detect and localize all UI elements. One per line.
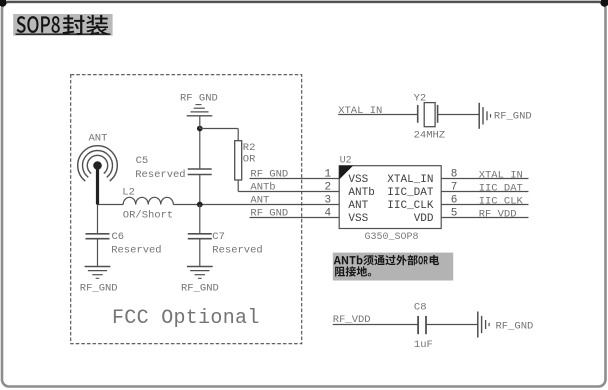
svg-text:C6: C6 [112, 231, 125, 243]
svg-text:RF GND: RF GND [250, 208, 288, 220]
svg-text:Y2: Y2 [414, 93, 427, 105]
svg-text:FCC Optional: FCC Optional [112, 307, 260, 330]
svg-text:RF_GND: RF_GND [494, 111, 532, 123]
svg-text:8: 8 [451, 169, 458, 181]
svg-text:ANT: ANT [89, 133, 108, 145]
svg-text:Reserved: Reserved [212, 245, 262, 257]
svg-text:Reserved: Reserved [111, 245, 161, 257]
svg-text:4: 4 [325, 208, 332, 220]
svg-text:RF_VDD: RF_VDD [333, 314, 371, 326]
svg-text:Reserved: Reserved [135, 169, 185, 181]
svg-text:XTAL IN: XTAL IN [338, 105, 382, 117]
svg-text:3: 3 [325, 195, 332, 207]
svg-text:RF GND: RF GND [180, 93, 218, 105]
svg-text:RF VDD: RF VDD [479, 209, 517, 221]
svg-text:XTAL IN: XTAL IN [479, 170, 523, 182]
svg-text:RF_GND: RF_GND [496, 321, 534, 333]
svg-text:ANT: ANT [250, 195, 269, 207]
svg-text:IIC_CLK: IIC_CLK [387, 200, 434, 212]
svg-text:VDD: VDD [414, 213, 434, 225]
svg-text:RF GND: RF GND [250, 169, 288, 181]
svg-text:ANTb: ANTb [348, 187, 374, 199]
svg-text:IIC_DAT: IIC_DAT [387, 187, 434, 199]
svg-text:IIC DAT: IIC DAT [479, 183, 523, 195]
svg-text:1: 1 [325, 169, 332, 181]
svg-text:RF_GND: RF_GND [80, 283, 118, 295]
svg-text:ANT: ANT [348, 200, 368, 212]
svg-text:VSS: VSS [348, 213, 368, 225]
svg-text:2: 2 [325, 182, 332, 194]
svg-text:OR: OR [243, 154, 256, 166]
svg-text:G350_SOP8: G350_SOP8 [365, 232, 419, 243]
svg-text:6: 6 [451, 195, 458, 207]
svg-text:VSS: VSS [348, 174, 368, 186]
svg-text:XTAL_IN: XTAL_IN [387, 174, 433, 186]
svg-text:5: 5 [451, 208, 458, 220]
svg-text:1uF: 1uF [414, 339, 433, 351]
svg-text:U2: U2 [340, 156, 352, 167]
svg-text:C5: C5 [136, 155, 149, 167]
svg-text:ANTb: ANTb [250, 182, 275, 194]
svg-text:L2: L2 [122, 186, 135, 198]
svg-text:24MHZ: 24MHZ [414, 130, 446, 142]
svg-text:RF_GND: RF_GND [181, 283, 219, 295]
svg-text:R2: R2 [243, 142, 256, 154]
svg-text:7: 7 [451, 182, 458, 194]
svg-text:C8: C8 [414, 302, 427, 314]
svg-text:C7: C7 [212, 231, 225, 243]
svg-text:IIC CLK: IIC CLK [479, 196, 524, 208]
svg-text:OR/Short: OR/Short [123, 209, 173, 221]
